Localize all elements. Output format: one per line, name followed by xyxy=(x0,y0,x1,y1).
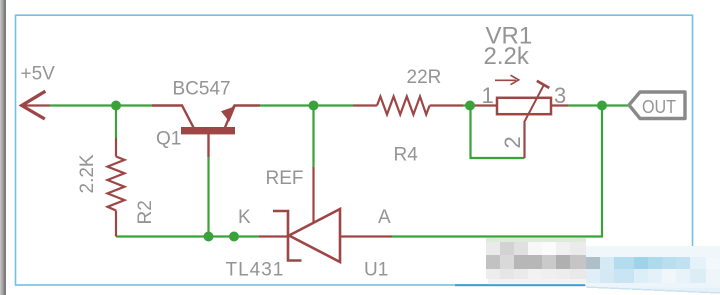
cathode lead xyxy=(259,235,288,237)
wire Q1 emitter to R4 xyxy=(260,104,353,106)
pin2 lead xyxy=(523,123,525,159)
svg-text:22R: 22R xyxy=(407,67,442,88)
wire node to R2 top xyxy=(115,106,117,139)
resistor R4 xyxy=(353,97,463,115)
wire R2 bottom to K node xyxy=(116,235,259,237)
emitter arrowhead xyxy=(221,106,236,122)
svg-text:3: 3 xyxy=(554,83,566,108)
node at VR1 pin1 xyxy=(465,101,475,111)
emitter lead xyxy=(234,104,261,106)
sheet frame bottom segment (darker, over watermark) xyxy=(455,284,585,286)
anode lead xyxy=(340,235,392,237)
wire R4 to VR1 pin1 xyxy=(463,104,474,106)
svg-text:BC547: BC547 xyxy=(173,78,231,99)
window left edge bar xyxy=(0,0,6,295)
wire VR1 pin1 down and to wiper return xyxy=(471,106,525,159)
svg-text:2: 2 xyxy=(500,136,525,148)
triangle body xyxy=(289,209,340,262)
wire Q1 base down to K node xyxy=(207,157,209,237)
base lead xyxy=(207,134,209,157)
svg-text:2.2k: 2.2k xyxy=(484,43,530,70)
body xyxy=(497,98,551,114)
svg-text:2.2K: 2.2K xyxy=(77,154,98,193)
wire OUT node down to anode row xyxy=(392,106,602,237)
wire VR1 pin3 to OUT xyxy=(568,104,629,106)
supply arrow +5V xyxy=(22,91,50,119)
REF pin xyxy=(312,167,314,223)
node K xyxy=(229,232,239,242)
pin3 lead xyxy=(551,104,568,106)
potentiometer VR1 xyxy=(474,75,568,158)
svg-text:R2: R2 xyxy=(135,200,156,224)
base bar xyxy=(181,127,235,134)
wire REF vertical xyxy=(312,106,314,168)
svg-text:Q1: Q1 xyxy=(156,128,181,149)
svg-text:OUT: OUT xyxy=(642,97,676,117)
resistor R2 xyxy=(108,138,125,237)
wiper diagonal xyxy=(524,85,544,122)
transistor Q1 xyxy=(152,106,260,158)
pin1 lead xyxy=(474,104,497,106)
OUT terminal tag xyxy=(629,92,685,119)
svg-text:K: K xyxy=(238,207,251,228)
node at Q1 base / K row xyxy=(204,232,214,242)
node at OUT xyxy=(597,101,607,111)
emitter diagonal xyxy=(225,106,234,128)
svg-text:1: 1 xyxy=(482,83,494,108)
node at REF xyxy=(309,101,319,111)
svg-text:A: A xyxy=(378,207,391,228)
wire +5V to Q1 collector xyxy=(49,104,152,106)
wiper slot tick xyxy=(537,81,550,88)
node at +5V/R2 xyxy=(111,101,121,111)
collector lead xyxy=(152,106,194,128)
shunt regulator U1 TL431 xyxy=(259,167,392,262)
svg-text:REF: REF xyxy=(266,168,304,189)
svg-text:TL431: TL431 xyxy=(226,260,285,281)
svg-text:U1: U1 xyxy=(364,260,388,281)
adjust arrow annotation xyxy=(495,79,516,81)
cathode bar with hooks xyxy=(273,211,302,261)
watermark mosaic (pixelated) xyxy=(486,238,720,294)
svg-text:R4: R4 xyxy=(394,145,419,166)
svg-text:+5V: +5V xyxy=(21,63,56,84)
